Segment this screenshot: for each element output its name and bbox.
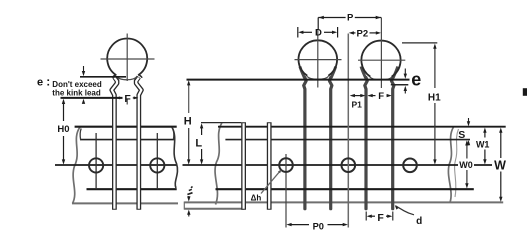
svg-text:e: e — [411, 69, 421, 89]
svg-text:W: W — [494, 159, 506, 173]
svg-text:S: S — [458, 129, 465, 141]
svg-text:P0: P0 — [313, 222, 324, 232]
svg-text:H0: H0 — [57, 124, 69, 135]
svg-text:P1: P1 — [351, 100, 362, 110]
svg-text:Δh: Δh — [251, 193, 262, 202]
svg-text:L: L — [195, 137, 202, 149]
svg-text:D: D — [315, 28, 322, 39]
svg-text:P2: P2 — [356, 28, 368, 39]
svg-text:H1: H1 — [428, 92, 441, 103]
svg-text:W1: W1 — [476, 140, 490, 150]
svg-text:d: d — [416, 216, 422, 227]
svg-text:F: F — [124, 93, 131, 105]
svg-text:H: H — [184, 116, 192, 128]
svg-text::: : — [46, 74, 50, 88]
svg-text:W0: W0 — [459, 160, 473, 170]
svg-text:P: P — [347, 12, 354, 23]
svg-text:e: e — [37, 76, 43, 88]
svg-text:the kink lead: the kink lead — [52, 89, 101, 98]
svg-text:Don't exceed: Don't exceed — [52, 80, 102, 89]
svg-text:F: F — [378, 91, 384, 102]
svg-text:F: F — [377, 212, 384, 224]
